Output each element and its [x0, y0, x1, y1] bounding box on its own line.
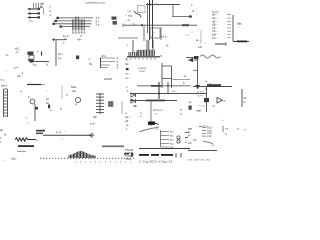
svg-text:xc:: xc: [170, 139, 174, 142]
svg-text:p:: p: [189, 100, 192, 104]
svg-text:-c;: -c; [15, 50, 19, 54]
svg-text:x1c:: x1c: [207, 134, 212, 138]
connector pin ticks [72, 31, 84, 33]
svg-text:q.: q. [192, 9, 195, 13]
svg-text:xc:: xc: [170, 131, 174, 134]
svg-text:-;x: -;x [125, 123, 129, 127]
svg-text::-·: :-· [61, 137, 64, 141]
svg-text:-: - [96, 48, 97, 52]
wire horizontal top stub [52, 38, 66, 41]
svg-text:%.:: %.: [89, 62, 93, 66]
svg-text:w·..: w·.. [195, 38, 201, 42]
svg-text:x.·4: x.·4 [56, 130, 61, 134]
svg-text:c0n:: c0n: [101, 54, 107, 58]
svg-text:1 x: 1 x [96, 23, 100, 27]
svg-text:x1;: x1; [72, 89, 76, 93]
svg-text:x.: x. [212, 144, 214, 147]
label above H2 right [172, 90, 177, 93]
svg-text:x;: x; [160, 54, 163, 58]
wire net H2 [130, 92, 207, 94]
label dot column right of J2 [125, 58, 128, 66]
label bus bit labels [96, 16, 100, 26]
label bottom row right [199, 125, 209, 128]
label dark marks right [124, 153, 133, 157]
wire vertical branch x147 [147, 3, 149, 33]
node sigma cluster [112, 17, 118, 25]
svg-text:+: + [20, 90, 22, 94]
label mid extra row [95, 116, 97, 119]
label mid values [88, 48, 97, 66]
svg-text:1:1: 1:1 [29, 19, 33, 23]
wire right vertical [242, 89, 247, 107]
svg-text:x1c:: x1c: [11, 157, 17, 161]
label cluster text [66, 85, 77, 97]
label left rows2 [188, 141, 192, 145]
label center rows [153, 108, 163, 116]
node top tick [155, 1, 157, 5]
svg-text:t.: t. [63, 41, 65, 45]
wire dotted vertical x201 [200, 30, 202, 44]
label under chain [93, 115, 96, 119]
label marks [221, 118, 224, 122]
label R3 value rows [58, 52, 63, 60]
svg-text:xc:: xc: [193, 139, 197, 142]
capacitor C2 squiggle [134, 11, 141, 18]
node left marks [188, 146, 189, 149]
wire dashed net top [85, 2, 105, 3]
svg-text:-:: -: [5, 69, 7, 73]
wire net H1 [137, 85, 190, 87]
svg-text:-|=: -|= [183, 74, 187, 78]
node input arrows x3 [27, 8, 40, 19]
wire horizontal left stub [118, 37, 138, 39]
label bottom-left of IC [195, 38, 206, 45]
svg-text:-.: -. [28, 142, 30, 145]
label under R9 [28, 142, 30, 145]
svg-text:x·: x· [244, 129, 246, 132]
label left top rows [126, 86, 129, 93]
svg-text:1c;: 1c; [33, 63, 37, 67]
svg-text:c.xx:: c.xx: [139, 69, 146, 73]
svg-text:▬x▬x.: ▬x▬x. [104, 78, 113, 81]
svg-text:..-: ..- [64, 130, 66, 133]
label resistor pack RP1 values [40, 2, 45, 10]
svg-text:x.: x. [205, 79, 208, 83]
svg-text:|;: |; [50, 5, 52, 9]
ground bus ticks [131, 58, 155, 60]
label mid text [193, 139, 214, 148]
svg-text:c=:: c=: [14, 66, 19, 70]
label dots under net [190, 31, 193, 34]
svg-text:=: ·c: =: ·c [199, 104, 205, 108]
wire bottom net [188, 150, 217, 152]
diode D6 arrow left [188, 58, 198, 62]
svg-text:q:: q: [75, 103, 78, 106]
svg-text:c1:: c1: [188, 141, 192, 145]
svg-text:x1 x.: x1 x. [161, 35, 167, 39]
svg-text:-x·:: -x·: [125, 62, 130, 66]
svg-text:-x▬c: -x▬c [125, 158, 132, 161]
svg-text:c( -: c( - [58, 56, 62, 60]
svg-text:-:·: -:· [221, 118, 224, 122]
svg-text:xc:: xc: [170, 135, 174, 138]
svg-text:;x:: ;x: [212, 104, 215, 108]
label marks mid-right [183, 74, 192, 88]
label J3 title [1, 84, 8, 88]
svg-text:----: ---- [237, 26, 241, 29]
IC X1 dark blob [28, 52, 35, 62]
svg-text:ic-74: ic-74 [212, 10, 219, 14]
label under-X1 rows [33, 63, 49, 67]
diode D1 glyph [76, 56, 79, 60]
wire vertical bus riser pair [150, 0, 153, 48]
svg-text::: : [188, 146, 189, 149]
wire scrawl diag [139, 127, 159, 132]
label right annotation [237, 22, 242, 29]
svg-text:x·c:: x·c: [172, 90, 177, 93]
svg-text:s::,·: s::,· [0, 78, 6, 82]
wire long net bottom [139, 148, 190, 150]
svg-text:x1: x1 [244, 96, 247, 100]
svg-text:+x: +x [225, 128, 229, 131]
svg-text:·: · [196, 12, 197, 16]
label right of motor [46, 97, 50, 108]
node left edge mark [60, 107, 62, 111]
svg-text:=;: =; [88, 57, 91, 61]
svg-text:c.: c. [151, 36, 153, 39]
svg-text::x: :x [223, 99, 226, 103]
resistor pack RP1 body [34, 3, 42, 9]
wire vertical dashed from RP1 [43, 8, 45, 15]
transistor Q1 box [144, 26, 161, 41]
svg-text:-c =;·: -c =;· [197, 94, 204, 98]
svg-text:+..: +.. [25, 116, 28, 120]
svg-text:-:: -: [29, 81, 31, 84]
wire top right stub [186, 56, 199, 62]
svg-text:d:: d: [166, 44, 169, 48]
label near D7 [205, 79, 217, 91]
label left pin rows [125, 58, 130, 81]
svg-text:· ·· ·: · ·· · [2, 159, 7, 162]
label J2 title [101, 54, 107, 58]
svg-text:1:: 1: [0, 136, 2, 140]
crystal Y1 marks [37, 50, 42, 56]
label bottom text [90, 122, 96, 126]
svg-text::-: :- [27, 121, 29, 125]
transistor Q3 glyph [75, 97, 81, 106]
connector J2 with pins [101, 56, 119, 70]
wire dotted row2 [75, 161, 131, 164]
svg-text:x-:: x-: [188, 134, 191, 137]
diode pair D8 D9 [131, 93, 136, 103]
label pin names [50, 5, 53, 17]
waveform comb [69, 151, 95, 158]
label corner text [0, 128, 7, 144]
svg-text:w:: w: [0, 128, 3, 132]
label osc text rows [6, 47, 19, 58]
wire dark horizontal top [27, 81, 45, 85]
label dark row under J2 [104, 78, 113, 81]
svg-text:c.: c. [66, 93, 69, 97]
svg-text:x:: x: [95, 116, 97, 119]
wire horizontal net A [146, 3, 180, 5]
svg-text:x: -: x: - [155, 112, 159, 116]
wire vertical V1 [158, 82, 160, 99]
node left edge dots [125, 14, 127, 24]
svg-text:0.: 0. [46, 63, 49, 67]
label right rows [180, 108, 183, 116]
svg-text:x:: x: [152, 31, 155, 35]
resistor network RN1 hatch [129, 40, 154, 57]
inductor L1 squiggle [200, 55, 220, 58]
wire dark bar1 [18, 145, 34, 147]
label title block left [125, 148, 133, 161]
svg-text:·:: ·: [125, 14, 127, 17]
resistor R9 zigzag [15, 138, 39, 142]
svg-text:x·c :1x· c-x: ·xc: x·c :1x· c-x: ·xc [188, 158, 210, 162]
wire dotted vertical [61, 86, 63, 99]
svg-text:-:: -: [204, 42, 206, 45]
capacitor C7 blob [108, 101, 114, 107]
wire horizontal net C [123, 24, 197, 28]
svg-text:x: c·▬ 1c:x ·-c x▬: c1: x: c·▬ 1c:x ·-c x▬: c1 [139, 160, 172, 164]
svg-text:b·: b· [6, 53, 9, 57]
diode D7 arrow down [195, 85, 200, 89]
svg-text:x.: x. [140, 115, 142, 118]
svg-text:c,: c, [126, 86, 128, 89]
svg-text:nnn: nnn [196, 109, 201, 113]
relay K1 box [162, 63, 190, 88]
svg-text:: ::: : :: [185, 33, 189, 37]
svg-text:-x·:: -x·: [125, 58, 130, 62]
node mark left of hatch [126, 43, 128, 47]
wire vertical J5 [160, 130, 162, 147]
label D5 text [198, 45, 203, 49]
svg-text:c,: c, [180, 112, 183, 116]
svg-text:c:: c: [80, 35, 82, 38]
wire ground bus dark [127, 56, 160, 58]
svg-text:1c x:: 1c x: [63, 34, 69, 38]
label faint dots left [2, 159, 7, 162]
svg-text:e7·--: e7·-- [212, 36, 218, 40]
wire vertical V2 [167, 82, 169, 94]
svg-text::: : [196, 7, 197, 11]
svg-text::-: :- [190, 84, 192, 88]
connector J3 ladder [4, 89, 8, 117]
label bottom caption right [188, 158, 210, 162]
svg-text:a:.: a:. [50, 109, 53, 112]
wire dark dashed bar [139, 153, 181, 158]
wire vertical V3 [150, 101, 152, 127]
svg-text:c:: c: [237, 128, 239, 131]
wire dark bottom bar [233, 41, 249, 43]
node plus mark [20, 90, 22, 94]
label left text rows2 [0, 66, 23, 82]
svg-text:x.: x. [225, 133, 227, 136]
svg-text:c▬x▬-: c▬x▬- [17, 150, 26, 153]
wire IC right bus vertical [232, 15, 234, 41]
label under arrows [29, 19, 33, 23]
svg-text:-x·:: -x·: [125, 76, 130, 80]
label net names row [161, 33, 189, 39]
label mid block rows [202, 126, 212, 138]
label text row [11, 157, 17, 161]
switch S1 dark blob [148, 122, 159, 125]
wire horizontal net B [172, 15, 192, 17]
svg-text::: : [125, 21, 126, 24]
motor M1 circle [28, 95, 38, 121]
wire dotted baseline [40, 158, 134, 159]
svg-text:/: / [22, 72, 23, 76]
label left of S1 [140, 112, 142, 119]
svg-text:1k: 1k [40, 5, 44, 9]
connector J5 rows [161, 130, 190, 149]
svg-text:x,·|·-: x,·|·- [90, 122, 96, 126]
svg-text:·|: ·| [126, 43, 128, 47]
label center text block [138, 66, 147, 73]
wire gray bar2 [102, 146, 124, 148]
wire net H3 [130, 100, 177, 102]
bus data lines grid [52, 17, 93, 31]
svg-text:x;c: x;c [128, 14, 133, 18]
label addr rows [188, 127, 192, 138]
svg-text:-x·:: -x·: [125, 72, 130, 76]
label connector J1 text [63, 34, 82, 45]
svg-text:c:: c: [244, 101, 246, 104]
svg-text:::: :: [155, 1, 157, 5]
svg-text:c.: c. [0, 141, 2, 144]
svg-text:-:x: -:x [126, 18, 130, 22]
wire divider [223, 126, 246, 136]
label top-right ref [191, 3, 195, 13]
svg-text::·c:: :·c: [127, 9, 132, 13]
IC U3 pin rows [211, 13, 231, 40]
wire vertical main [206, 87, 208, 112]
wire vertical mid [55, 40, 57, 66]
wire dotted vertical2 [121, 101, 123, 114]
resistor chain R array [96, 93, 104, 114]
capacitor C4 box faint [138, 6, 146, 13]
svg-text:d8:: d8: [133, 104, 137, 108]
node left edge marks [196, 7, 197, 16]
wire horizontal under X1 [30, 61, 50, 63]
label left texts [189, 100, 202, 113]
svg-text:·:: ·: [46, 90, 48, 93]
label bottom marks [25, 116, 29, 125]
label U3 title [212, 10, 219, 14]
svg-text:x-: x- [209, 83, 211, 86]
label bottom-left rows [125, 112, 131, 131]
label gray row [17, 150, 26, 153]
label bottom caption center [139, 160, 172, 164]
svg-text:c4.:: c4.: [198, 45, 203, 49]
svg-text:=0=: =0= [77, 38, 82, 42]
svg-text::·:: :·: [190, 31, 193, 34]
wire net top [193, 83, 232, 88]
wire vertical right branch [193, 59, 198, 87]
label dark blocks [36, 130, 45, 134]
svg-text:r·: r· [37, 50, 39, 54]
op-amp U5 cluster [197, 90, 226, 108]
svg-text:sw·1: sw·1 [1, 84, 8, 88]
label right of bus [160, 44, 169, 58]
svg-text:p.: p. [50, 14, 53, 17]
svg-text:d.: d. [4, 133, 7, 137]
label U2 cluster text [126, 9, 136, 26]
svg-text:xx.: xx. [17, 74, 21, 78]
svg-text:x:: x: [156, 128, 158, 131]
wire dash right [215, 42, 226, 45]
svg-text:x.: x. [183, 81, 186, 85]
svg-text:1c: 1c [46, 101, 50, 105]
svg-text:b:: b: [28, 95, 31, 99]
label faint dots [40, 157, 47, 160]
label under diodes [133, 104, 137, 108]
label near motor extra [46, 90, 53, 113]
svg-text:r:: r: [191, 3, 193, 7]
wire vertical drop [172, 5, 174, 17]
svg-text:+:: +: [36, 138, 39, 142]
wire long net [43, 130, 94, 141]
